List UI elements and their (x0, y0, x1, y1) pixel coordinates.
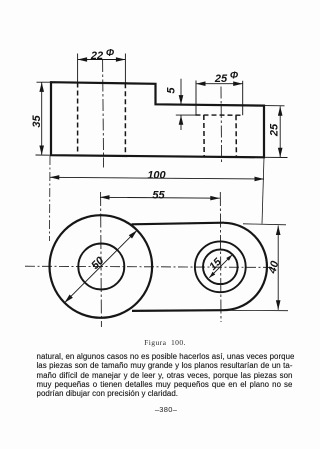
dimension 25 right side (279, 106, 281, 157)
svg-text:25: 25 (214, 73, 228, 85)
dimension 15 diagonal (209, 255, 232, 278)
extension: bottom edge left for 35 dim (36, 154, 52, 156)
extension: top edge right for 25 dim (264, 105, 285, 107)
hidden line 22 hole left (77, 83, 79, 156)
svg-text:Φ: Φ (230, 71, 239, 82)
svg-text:22: 22 (90, 50, 103, 62)
centerline hole 15 front view (220, 87, 223, 165)
svg-text:40: 40 (266, 259, 281, 276)
svg-text:15: 15 (207, 256, 224, 273)
plan view: hole circle 22 (78, 244, 124, 290)
caption (5, 338, 320, 347)
front view outline: tall left block (51, 82, 264, 157)
plan view: big circle 50 (50, 215, 153, 318)
body text (37, 352, 293, 399)
hidden line 22 hole right (124, 83, 126, 156)
svg-text:55: 55 (152, 189, 165, 201)
dimension line 100 (50, 177, 264, 179)
dimension 40 (277, 226, 279, 310)
dimension 35 (41, 82, 43, 155)
plan view: counterbore circle 25 (195, 241, 246, 292)
extension 25phi left / counterbore left wall (195, 81, 197, 115)
page number (6, 405, 320, 414)
plan view: hole circle 15 (203, 249, 238, 284)
extension: bottom edge right for 25 dim (264, 156, 288, 158)
extension 25phi right / counterbore right wall (242, 81, 244, 115)
dimension 50 diagonal (65, 230, 138, 303)
hidden line 15 hole right (235, 115, 237, 157)
plan view: bottom tangent line (132, 309, 223, 312)
svg-text:100: 100 (147, 170, 166, 182)
hidden line 15 hole left (203, 115, 205, 157)
plan view: right end arc (223, 223, 267, 310)
extension 22 dim right (124, 54, 126, 84)
vertical centerline right circle (219, 192, 222, 322)
extension 100 dim left dashdot (49, 156, 52, 241)
counterbore bottom extension left (176, 114, 196, 116)
horizontal centerline plan view (25, 266, 272, 267)
svg-text:50: 50 (89, 254, 107, 272)
dimension 5 upper arrow (180, 79, 182, 105)
extension 22 dim left (77, 54, 79, 83)
svg-text:5: 5 (166, 87, 178, 94)
extension 100/40 dim right (262, 157, 264, 224)
extension: top edge left for 35 dim (37, 81, 52, 83)
dimension line 22 (78, 59, 126, 61)
extension 40 bottom (222, 309, 288, 311)
dimension line 55 (100, 196, 220, 199)
vertical centerline left circle (100, 192, 103, 327)
centerline hole 22 front view (103, 60, 104, 168)
svg-text:Φ: Φ (106, 48, 115, 59)
plan view: top tangent line (132, 223, 225, 225)
counterbore bottom hidden line (196, 114, 244, 116)
dimension line 25phi (196, 83, 243, 85)
svg-text:25: 25 (269, 123, 281, 137)
svg-text:35: 35 (31, 115, 43, 128)
dimension 5 lower arrow (180, 115, 182, 130)
extension 40 top (243, 224, 286, 225)
